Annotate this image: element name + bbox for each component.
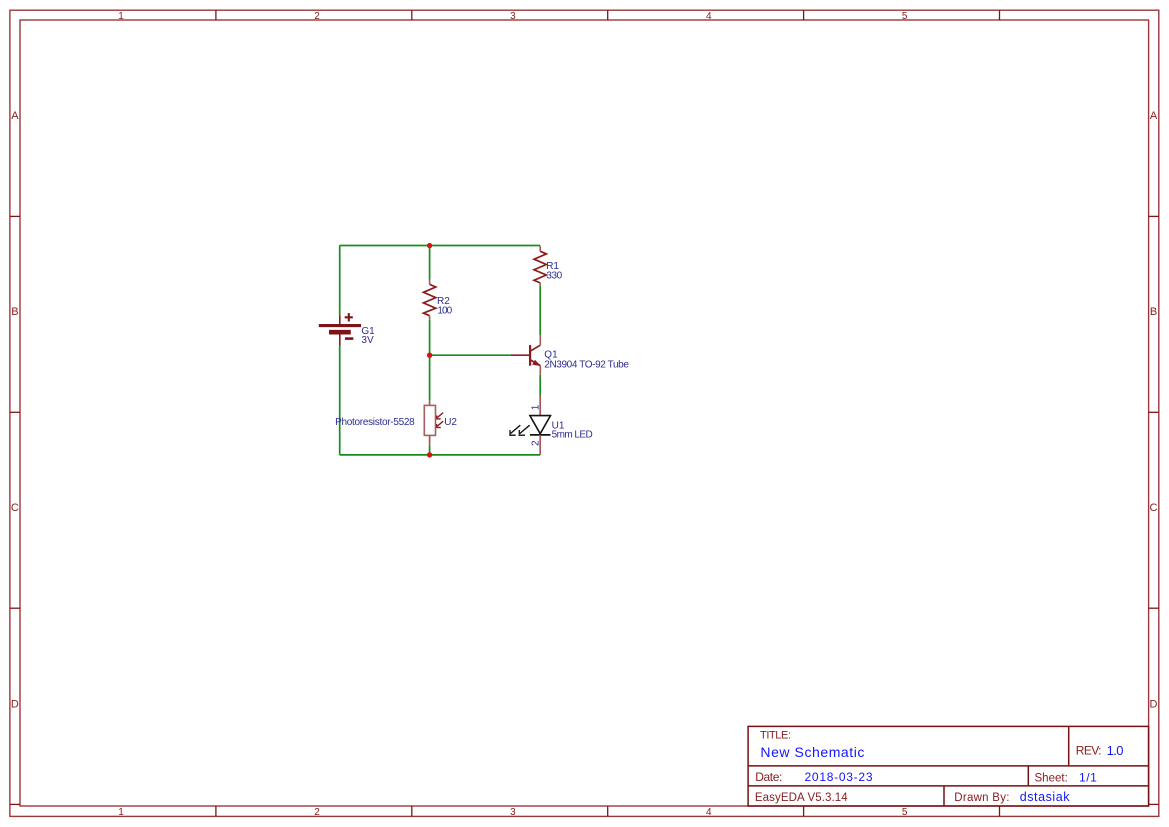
svg-text:New Schematic: New Schematic bbox=[760, 744, 864, 760]
title block box bbox=[748, 726, 1149, 806]
LED U1 pin 1 lead bbox=[539, 396, 541, 416]
svg-text:Sheet:: Sheet: bbox=[1035, 772, 1068, 784]
LED U1 light arrow 1 head barb vertical bbox=[509, 430, 511, 434]
wire left vertical upper bbox=[339, 246, 341, 316]
wire base junction to U2 bbox=[429, 355, 431, 400]
wire emitter to LED bbox=[539, 375, 541, 396]
svg-text:1: 1 bbox=[531, 404, 542, 410]
battery G1 pin top bbox=[339, 315, 341, 324]
wire R2 to base junction bbox=[429, 320, 431, 356]
title block row divider 1 bbox=[748, 765, 1149, 767]
photoresistor U2 body bbox=[424, 405, 435, 435]
svg-text:3: 3 bbox=[510, 807, 516, 818]
wire middle column top bbox=[429, 246, 431, 280]
LED U1 light arrow 2 head barb vertical bbox=[518, 430, 520, 434]
svg-text:2: 2 bbox=[531, 440, 542, 446]
row tick right B/C bbox=[1149, 411, 1159, 413]
row tick left D/bottom bbox=[10, 803, 20, 805]
svg-text:REV:: REV: bbox=[1076, 743, 1102, 757]
photoresistor U2 arrow 2 head barb vertical bbox=[436, 424, 438, 427]
column tick top 2 bbox=[411, 10, 413, 20]
wire bottom horizontal bbox=[340, 454, 541, 456]
row tick right A/B bbox=[1149, 215, 1159, 217]
column tick bottom 1 bbox=[215, 806, 217, 816]
transistor Q1 emitter diagonal bbox=[531, 360, 541, 366]
resistor R1 pin top bbox=[539, 246, 541, 252]
svg-text:3V: 3V bbox=[361, 335, 374, 346]
resistor R1 pin bottom bbox=[539, 283, 541, 286]
svg-text:A: A bbox=[1150, 110, 1158, 122]
junction node base bbox=[427, 353, 432, 358]
title block REV cell divider bbox=[1068, 726, 1070, 766]
svg-text:TITLE:: TITLE: bbox=[760, 730, 791, 742]
row tick left B/C bbox=[10, 411, 20, 413]
svg-text:3: 3 bbox=[510, 11, 516, 22]
wire U2 bottom bbox=[429, 445, 431, 455]
row tick left C/D bbox=[10, 607, 20, 609]
photoresistor U2 arrow 1 head barb vertical bbox=[436, 415, 438, 418]
transistor Q1 emitter lead bbox=[539, 366, 541, 375]
svg-text:2: 2 bbox=[314, 807, 320, 818]
LED U1 triangle bbox=[530, 416, 551, 434]
svg-text:2N3904 TO-92 Tube: 2N3904 TO-92 Tube bbox=[544, 360, 629, 371]
battery G1 plus sign bbox=[345, 313, 353, 321]
LED U1 pin 2 lead bbox=[539, 435, 541, 455]
LED U1 light arrow 1 head barb horizontal bbox=[509, 434, 516, 436]
svg-text:1.0: 1.0 bbox=[1107, 743, 1124, 758]
transistor Q1 collector lead bbox=[539, 335, 541, 345]
svg-text:C: C bbox=[1150, 502, 1158, 514]
wire base horizontal bbox=[430, 354, 511, 356]
svg-text:B: B bbox=[11, 306, 18, 318]
svg-text:4: 4 bbox=[706, 11, 712, 22]
svg-text:330: 330 bbox=[546, 270, 562, 281]
transistor Q1 base bar bbox=[529, 345, 531, 366]
battery G1 pin bottom bbox=[339, 335, 341, 346]
svg-text:1: 1 bbox=[118, 807, 124, 818]
svg-text:dstasiak: dstasiak bbox=[1020, 790, 1071, 804]
LED U1 light arrow 2 line bbox=[520, 425, 530, 433]
resistor R1 zigzag bbox=[534, 251, 546, 283]
wire left vertical lower bbox=[339, 346, 341, 455]
column tick top 5 bbox=[999, 10, 1001, 20]
column tick top 1 bbox=[215, 10, 217, 20]
svg-text:2018-03-23: 2018-03-23 bbox=[805, 770, 873, 784]
junction node bottom bbox=[427, 452, 432, 457]
column tick bottom 2 bbox=[411, 806, 413, 816]
resistor R2 pin bottom bbox=[429, 316, 431, 320]
battery G1 plate negative bbox=[329, 330, 351, 335]
svg-text:B: B bbox=[1150, 306, 1157, 318]
svg-text:100: 100 bbox=[437, 306, 452, 317]
photoresistor U2 pin bottom bbox=[429, 435, 431, 445]
transistor Q1 emitter arrow bbox=[532, 360, 541, 366]
svg-text:C: C bbox=[11, 502, 19, 514]
row tick right D/bottom bbox=[1149, 803, 1159, 805]
title block row divider 2 bbox=[748, 785, 1149, 787]
transistor Q1 collector diagonal bbox=[531, 345, 541, 351]
photoresistor U2 arrow 1 line bbox=[437, 413, 443, 418]
svg-text:U2: U2 bbox=[444, 417, 457, 428]
svg-text:EasyEDA V5.3.14: EasyEDA V5.3.14 bbox=[755, 792, 848, 804]
resistor R2 pin top bbox=[429, 280, 431, 285]
LED U1 light arrow 1 line bbox=[510, 425, 520, 433]
resistor R2 zigzag bbox=[423, 284, 435, 315]
row tick right C/D bbox=[1149, 607, 1159, 609]
column tick bottom 3 bbox=[607, 806, 609, 816]
column tick top 3 bbox=[607, 10, 609, 20]
svg-text:5: 5 bbox=[902, 11, 908, 22]
column tick bottom 5 bbox=[999, 806, 1001, 816]
svg-text:Photoresistor-5528: Photoresistor-5528 bbox=[335, 417, 415, 428]
battery G1 plate positive bbox=[319, 324, 361, 327]
wire top horizontal bbox=[340, 245, 541, 247]
svg-text:1: 1 bbox=[118, 11, 124, 22]
title block Sheet cell divider bbox=[1027, 766, 1029, 786]
svg-text:D: D bbox=[1150, 699, 1158, 711]
svg-text:D: D bbox=[11, 699, 19, 711]
svg-text:4: 4 bbox=[706, 807, 712, 818]
junction node top bbox=[427, 243, 432, 248]
photoresistor U2 arrow 1 head barb horizontal bbox=[436, 418, 441, 420]
svg-text:Drawn By:: Drawn By: bbox=[954, 792, 1009, 804]
svg-text:Date:: Date: bbox=[755, 770, 782, 784]
svg-text:1/1: 1/1 bbox=[1079, 770, 1097, 784]
wire R1 to collector bbox=[539, 286, 541, 335]
LED U1 cathode bar bbox=[530, 434, 551, 436]
photoresistor U2 arrow 2 line bbox=[437, 421, 443, 426]
row tick left A/B bbox=[10, 215, 20, 217]
svg-text:A: A bbox=[11, 110, 19, 122]
transistor Q1 base pin bbox=[511, 354, 529, 356]
svg-text:2: 2 bbox=[314, 11, 320, 22]
title block DrawnBy cell divider bbox=[943, 786, 945, 806]
photoresistor U2 arrow 2 head barb horizontal bbox=[436, 427, 441, 429]
svg-text:5: 5 bbox=[902, 807, 908, 818]
photoresistor U2 pin top bbox=[429, 400, 431, 405]
svg-text:5mm LED: 5mm LED bbox=[552, 429, 593, 440]
battery G1 minus sign bbox=[345, 337, 353, 340]
LED U1 light arrow 2 head barb horizontal bbox=[519, 434, 526, 436]
column tick top 4 bbox=[803, 10, 805, 20]
column tick bottom 4 bbox=[803, 806, 805, 816]
